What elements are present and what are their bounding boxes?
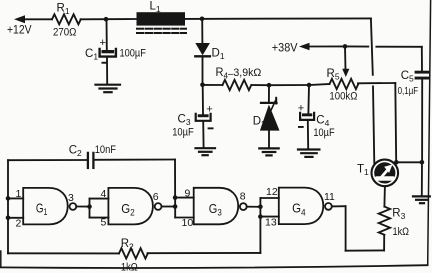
wire C4 to ground — [307, 120, 309, 149]
svg-text:10µF: 10µF — [313, 127, 334, 139]
resistor R3 — [379, 207, 390, 235]
svg-text:10µF: 10µF — [172, 127, 194, 139]
nand gate G1 — [23, 188, 76, 225]
wire node to C3 — [202, 85, 204, 114]
svg-text:+: + — [100, 37, 106, 49]
G1 input stubs — [8, 197, 23, 199]
L1 core dashes row 1 — [137, 28, 186, 30]
nand gate G4 — [279, 188, 332, 225]
+38V wire to C5 corner (with hop gap) — [345, 45, 368, 47]
svg-text:R4–3,9kΩ: R4–3,9kΩ — [216, 67, 262, 81]
+38V supply arrow — [299, 43, 345, 50]
wire G1 out to G2 in — [76, 206, 89, 208]
wire to R4 — [203, 84, 223, 86]
node G4 in — [258, 205, 263, 210]
wire C3 to ground — [202, 121, 204, 148]
node G4 pin13 — [258, 214, 263, 219]
wire G2 out to G3 in — [162, 206, 176, 208]
node G2 inputs — [87, 204, 92, 209]
rail R4 to D2 node — [252, 84, 270, 86]
wire node to C4 — [307, 85, 310, 113]
svg-text:10nF: 10nF — [95, 144, 117, 156]
wire node to D1 — [201, 19, 203, 43]
resistor R4 — [223, 80, 252, 90]
svg-text:270Ω: 270Ω — [53, 27, 76, 39]
G2 input connector — [89, 199, 91, 218]
ground (C3) — [196, 148, 216, 155]
svg-text:10: 10 — [182, 217, 194, 229]
svg-text:1kΩ: 1kΩ — [393, 226, 410, 238]
svg-text:3: 3 — [68, 192, 74, 204]
svg-text:+12V: +12V — [7, 25, 32, 37]
svg-text:8: 8 — [240, 191, 246, 203]
svg-text:100µF: 100µF — [120, 48, 147, 60]
wire R2 to G4 input connector — [148, 252, 261, 254]
node T1 emitter / R5 — [394, 160, 399, 165]
wire to ground (T1 emitter) — [421, 162, 423, 196]
G4 input stubs — [260, 197, 278, 199]
vertical line top wire to T1 collector (with hop gap) — [371, 18, 373, 74]
node G3 in — [173, 204, 178, 209]
wire R3 to bottom corner — [383, 235, 385, 251]
left feedback wire — [7, 160, 9, 253]
ground (emitter) — [413, 196, 430, 203]
wire R1 to L1 — [81, 18, 137, 20]
svg-text:11: 11 — [324, 191, 335, 203]
node R1/C1/L1 — [104, 17, 109, 22]
svg-text:+38V: +38V — [272, 42, 298, 54]
svg-text:2: 2 — [16, 218, 22, 230]
capacitor C3 — [196, 103, 214, 129]
wire G3 out to G4 in — [247, 206, 261, 208]
bottom feedback wire — [8, 252, 119, 254]
inductor L1 — [137, 12, 186, 25]
rail D2 node to C4 node — [269, 84, 309, 86]
zener diode D2 — [260, 98, 280, 131]
wire T1 base to R3 — [383, 186, 386, 206]
wire node to D2 — [268, 85, 270, 102]
L1 core dashes row 2 — [137, 32, 186, 34]
resistor R2 — [119, 248, 148, 258]
wire bottom to G4 output — [346, 249, 385, 251]
svg-text:12: 12 — [266, 186, 278, 198]
svg-text:5: 5 — [101, 217, 107, 229]
ground (D2) — [259, 148, 278, 155]
+12V supply arrow — [14, 15, 52, 23]
node D2 — [267, 83, 272, 88]
rail C4 node to R5 — [309, 84, 330, 85]
wire emitter node to C5 line — [396, 161, 422, 163]
node +38V/R5 wiper — [343, 44, 348, 49]
ground (C4) — [298, 150, 319, 157]
svg-text:6: 6 — [153, 191, 159, 203]
R5 wiper arrow — [342, 46, 349, 77]
capacitor C5 — [415, 47, 430, 163]
G3 input stubs — [175, 197, 194, 199]
svg-text:0,1µF: 0,1µF — [398, 85, 419, 97]
capacitor C2 — [88, 153, 94, 168]
page border left tick — [0, 251, 2, 267]
page border right — [428, 0, 431, 265]
capacitor C4 — [298, 102, 314, 128]
resistor R1 — [52, 14, 81, 24]
node L1/D1 — [200, 17, 205, 22]
diode D1 — [195, 43, 210, 56]
nand gate G2 — [108, 188, 161, 225]
transistor T1 — [372, 160, 399, 187]
wire L1 to right corner — [185, 17, 371, 20]
svg-text:4: 4 — [101, 188, 107, 200]
node C4 — [307, 83, 312, 88]
page border bottom — [0, 265, 428, 268]
C2 down wire / G3 input connector — [174, 160, 176, 218]
wire D2 to ground — [268, 131, 270, 148]
svg-text:13: 13 — [265, 216, 277, 228]
node G3 pin9 — [173, 195, 178, 200]
nand gate G3 — [194, 188, 247, 225]
svg-text:9: 9 — [185, 187, 191, 199]
wire D1 to rail — [202, 58, 204, 85]
C2 wire left — [8, 159, 87, 161]
capacitor C1 — [100, 37, 116, 64]
node C5 line — [420, 160, 425, 165]
potentiometer R5 — [330, 79, 359, 89]
C2 wire right to G3 input — [95, 159, 175, 161]
svg-text:100kΩ: 100kΩ — [329, 91, 357, 103]
svg-text:1: 1 — [16, 188, 22, 200]
node D1/R4/C3 — [200, 83, 205, 88]
wire C1 to ground — [106, 58, 108, 84]
G4 input connector — [259, 198, 261, 253]
wire node to C1 — [106, 19, 108, 49]
wire R5 to T1 emitter line — [358, 82, 395, 84]
ground (C1) — [96, 85, 121, 93]
node G1 pin2 — [6, 216, 11, 221]
node G1 pin1 — [6, 196, 11, 201]
